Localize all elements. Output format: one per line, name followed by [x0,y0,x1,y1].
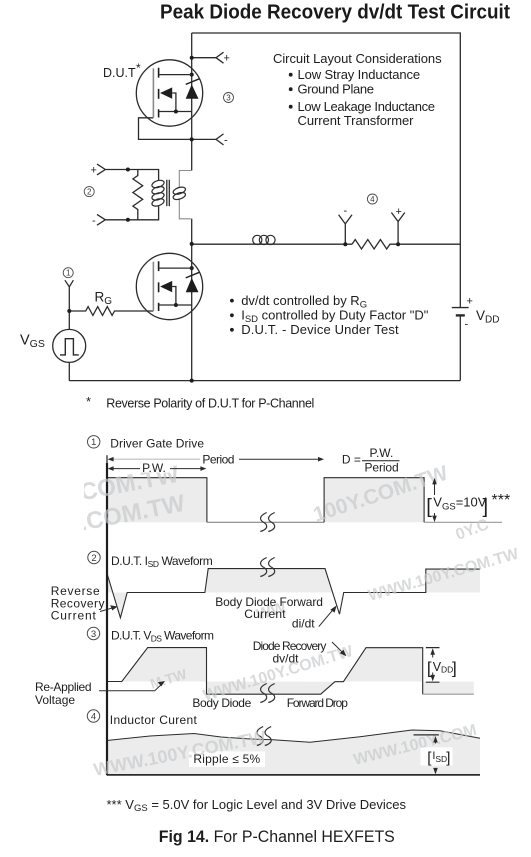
svg-text:2: 2 [91,553,96,564]
svg-text:D.U.T. ISD Waveform: D.U.T. ISD Waveform [111,554,213,569]
svg-text:Ground Plane: Ground Plane [298,81,375,96]
svg-text:Circuit Layout Considerations: Circuit Layout Considerations [273,51,442,66]
svg-text:Fig 14. For P-Channel HEXFETS: Fig 14. For P-Channel HEXFETS [159,827,395,846]
svg-text:]: ] [446,750,450,767]
svg-text:+: + [224,53,230,65]
svg-text:***: *** [492,492,511,509]
svg-text:Low Stray Inductance: Low Stray Inductance [298,67,421,82]
svg-text:di/dt: di/dt [292,617,315,631]
svg-text:-: - [465,319,469,331]
svg-text:Body Diode: Body Diode [192,696,251,710]
svg-text:P.W.: P.W. [142,461,166,475]
svg-text:D.U.T: D.U.T [103,66,136,80]
svg-text:Inductor Curent: Inductor Curent [110,713,198,727]
svg-text:Ripple ≤ 5%: Ripple ≤ 5% [193,752,260,766]
svg-text:P.W.: P.W. [370,446,394,460]
svg-text:Voltage: Voltage [35,693,75,707]
svg-text:Reverse Polarity of D.U.T for: Reverse Polarity of D.U.T for P-Channel [106,397,314,411]
svg-text:2: 2 [87,188,92,197]
svg-text:+: + [467,296,473,308]
svg-text:*: * [86,394,91,409]
svg-text:-: - [344,205,348,217]
svg-text:-: - [224,135,228,147]
svg-text:Period: Period [365,461,399,475]
svg-text:D.U.T. - Device Under Test: D.U.T. - Device Under Test [241,322,399,337]
svg-text:Peak Diode Recovery dv/dt Test: Peak Diode Recovery dv/dt Test Circuit [160,2,510,24]
svg-text:dv/dt: dv/dt [273,652,300,666]
svg-text:4: 4 [370,195,375,204]
svg-text:3: 3 [91,629,96,640]
svg-text:1: 1 [66,269,71,278]
svg-text:]: ] [483,496,489,518]
svg-text:Forward Drop: Forward Drop [287,696,349,710]
svg-text:3: 3 [226,93,231,102]
svg-text:Low Leakage Inductance: Low Leakage Inductance [298,99,436,114]
svg-text:+: + [396,206,402,218]
svg-text:Driver Gate Drive: Driver Gate Drive [110,437,204,451]
svg-text:+: + [91,165,97,177]
svg-text:1: 1 [91,437,96,448]
svg-text:-: - [92,215,96,227]
svg-text:Current: Current [244,607,286,621]
svg-text:D.U.T. VDS Waveform: D.U.T. VDS Waveform [111,629,214,644]
svg-text:Re-Applied: Re-Applied [35,680,92,694]
svg-text:]: ] [452,658,457,677]
svg-text:[: [ [427,658,432,677]
svg-text:D =: D = [342,453,361,467]
svg-text:Period: Period [202,453,234,467]
svg-text:Current: Current [51,609,97,623]
svg-text:[: [ [426,496,432,518]
svg-text:4: 4 [91,711,96,722]
svg-text:*: * [136,61,141,75]
svg-text:*** VGS = 5.0V for Logic Level: *** VGS = 5.0V for Logic Level and 3V Dr… [107,797,407,814]
svg-text:Current Transformer: Current Transformer [298,113,415,128]
